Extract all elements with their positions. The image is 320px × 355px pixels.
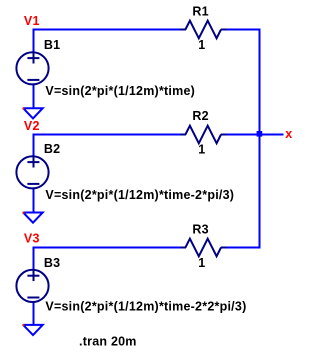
svg-text:R1: R1	[192, 5, 208, 19]
B3 plus sign	[27, 270, 39, 281]
wire: row1 horizontal rail from R1 right lead to right bus	[221, 29, 261, 31]
svg-text:V=sin(2*pi*(1/12m)*time): V=sin(2*pi*(1/12m)*time)	[45, 84, 195, 98]
wire: right bus vertical from row1 to row3	[259, 29, 261, 249]
svg-text:V2: V2	[24, 119, 40, 133]
B3 minus sign	[27, 297, 39, 299]
svg-text:1: 1	[198, 38, 205, 52]
resistor R3 (zigzag body)	[181, 239, 227, 257]
svg-text:B2: B2	[44, 142, 60, 156]
svg-text:.tran 20m: .tran 20m	[79, 335, 137, 349]
wire: row2 horizontal rail from R2 right lead to right bus	[221, 134, 260, 136]
wire: V3 node vertical drop from row3 rail to B3 top	[33, 247, 35, 271]
resistor R2 (zigzag body)	[181, 126, 227, 144]
voltage source B1 (circle body)	[16, 52, 48, 84]
wire: B2 bottom lead to ground	[33, 188, 35, 213]
wire: V2 node vertical drop from row2 rail to B2 top	[33, 134, 35, 157]
svg-text:V3: V3	[24, 231, 40, 245]
wire: row1 horizontal rail from B1 to R1 left lead	[33, 29, 186, 31]
resistor R1 (zigzag body)	[181, 21, 227, 39]
wire: stub from junction to node x	[260, 134, 284, 136]
svg-text:R2: R2	[192, 109, 208, 123]
wire: row3 horizontal rail from R3 right lead to right bus	[221, 247, 261, 249]
svg-text:B3: B3	[44, 256, 60, 270]
svg-text:R3: R3	[192, 223, 208, 237]
wire: row2 horizontal rail from B2 to R2 left lead	[33, 134, 186, 136]
wire: B3 bottom lead to ground	[33, 302, 35, 325]
svg-text:V=sin(2*pi*(1/12m)*time-2*2*pi: V=sin(2*pi*(1/12m)*time-2*2*pi/3)	[45, 300, 246, 314]
svg-text:x: x	[285, 127, 292, 141]
ground: GND symbol under B3	[22, 324, 42, 335]
B2 plus sign	[27, 157, 39, 168]
ground: GND symbol under B1	[22, 107, 42, 118]
svg-text:1: 1	[198, 256, 205, 270]
wire: B1 bottom lead to ground	[33, 84, 35, 109]
B1 plus sign	[27, 53, 39, 64]
junction: node x junction square on right bus	[257, 131, 263, 137]
ground: GND symbol under B2	[22, 212, 42, 223]
B2 minus sign	[27, 183, 39, 185]
wire: V1 node vertical drop from top rail to B1 top	[33, 29, 35, 53]
B1 minus sign	[27, 79, 39, 81]
wire: row3 horizontal rail from B3 to R3 left lead	[33, 247, 186, 249]
svg-text:V=sin(2*pi*(1/12m)*time-2*pi/3: V=sin(2*pi*(1/12m)*time-2*pi/3)	[45, 188, 234, 202]
svg-text:B1: B1	[44, 38, 60, 52]
svg-text:V1: V1	[24, 14, 40, 28]
voltage source B2 (circle body)	[16, 156, 48, 188]
svg-text:1: 1	[198, 143, 205, 157]
voltage source B3 (circle body)	[16, 270, 48, 302]
